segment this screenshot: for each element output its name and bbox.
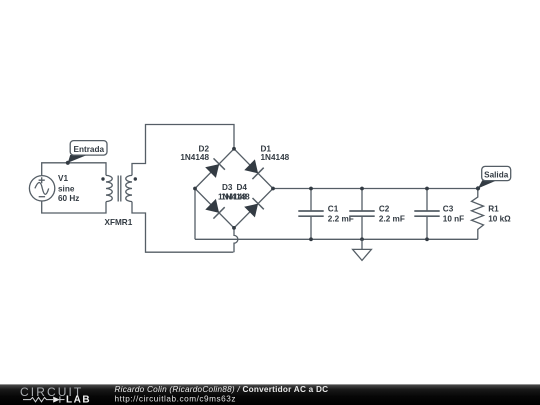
svg-text:C1: C1 xyxy=(328,205,339,214)
diode D4 xyxy=(244,198,264,217)
svg-text:D2: D2 xyxy=(199,144,210,153)
svg-text:LAB: LAB xyxy=(66,394,91,405)
label C2 xyxy=(379,205,405,224)
diode D1 xyxy=(244,159,263,179)
wire secondary top to bridge xyxy=(132,125,234,176)
svg-text:10 kΩ: 10 kΩ xyxy=(488,215,511,224)
svg-text:Entrada: Entrada xyxy=(74,145,105,154)
svg-text:Salida: Salida xyxy=(484,170,509,179)
svg-text:V1: V1 xyxy=(58,174,68,183)
label C1 xyxy=(328,205,354,224)
wire source top xyxy=(42,163,106,176)
capacitor C3 xyxy=(414,189,439,240)
diode bridge diamond xyxy=(195,149,273,228)
svg-text:1N4148: 1N4148 xyxy=(221,192,250,201)
dot primary xyxy=(101,177,104,180)
svg-text:XFMR1: XFMR1 xyxy=(105,218,133,227)
capacitor C1 xyxy=(298,189,323,240)
dot secondary xyxy=(134,177,137,180)
wire bottom rail xyxy=(195,238,478,240)
svg-text:1N4148: 1N4148 xyxy=(180,153,209,162)
flag Entrada xyxy=(66,141,107,165)
flag Salida xyxy=(476,166,511,190)
wire secondary bottom xyxy=(132,202,233,253)
logo wire zigzag and diode xyxy=(23,397,60,403)
svg-text:D1: D1 xyxy=(261,144,272,153)
label V1 xyxy=(58,174,79,203)
label D2 xyxy=(180,144,209,162)
wire source bottom xyxy=(42,201,106,213)
resistor R1 xyxy=(472,189,484,240)
svg-text:60 Hz: 60 Hz xyxy=(58,194,79,203)
node bottom xyxy=(232,226,236,230)
footer bar xyxy=(0,384,540,405)
svg-text:R1: R1 xyxy=(488,205,499,214)
svg-text:C2: C2 xyxy=(379,205,390,214)
svg-text:C3: C3 xyxy=(443,205,454,214)
svg-text:2.2 mF: 2.2 mF xyxy=(379,215,405,224)
capacitor C2 xyxy=(349,189,374,240)
transformer XFMR1 xyxy=(106,175,132,201)
node left xyxy=(193,187,197,191)
label C3 xyxy=(443,205,464,224)
svg-text:http://circuitlab.com/c9ms63z: http://circuitlab.com/c9ms63z xyxy=(115,395,237,404)
svg-text:Ricardo Colin (RicardoColin88): Ricardo Colin (RicardoColin88) / Convert… xyxy=(115,385,329,394)
node right xyxy=(271,187,275,191)
label D1 xyxy=(261,144,290,162)
node top xyxy=(232,147,236,151)
label 1N4148 overlap xyxy=(218,192,250,201)
ground xyxy=(353,239,372,260)
wire bridge bottom vertex with hop xyxy=(234,228,238,252)
wire top rail xyxy=(273,188,478,190)
svg-text:D4: D4 xyxy=(236,183,247,192)
svg-text:sine: sine xyxy=(58,184,75,193)
svg-text:D3: D3 xyxy=(222,183,233,192)
svg-text:1N4148: 1N4148 xyxy=(261,153,290,162)
label R1 xyxy=(488,205,511,224)
voltage source V1 xyxy=(29,176,54,201)
diode D2 xyxy=(205,158,225,178)
wire DC minus vertical xyxy=(194,189,196,240)
diode D3 xyxy=(205,199,224,219)
svg-text:10 nF: 10 nF xyxy=(443,215,464,224)
